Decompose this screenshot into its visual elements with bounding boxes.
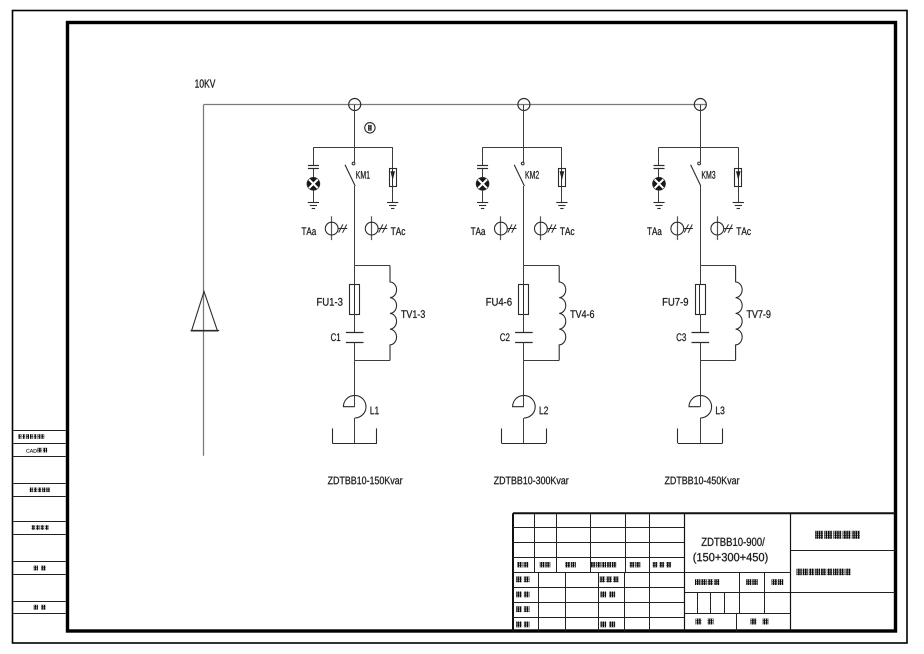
label ZDTBB10-900/ — [702, 537, 765, 546]
wire main branch 3 — [700, 186, 702, 266]
wire branch 1 — [354, 360, 356, 406]
wire branch 1 — [392, 186, 394, 202]
wire branch 3 — [700, 360, 702, 406]
current transformer TAa — [671, 216, 693, 240]
current transformer TAa — [495, 216, 517, 240]
wire branch 3 — [700, 314, 702, 333]
wire parallel top branch 1 — [355, 265, 390, 267]
label KM1 — [356, 171, 369, 179]
ground — [653, 203, 664, 209]
wire branch 3 — [738, 186, 740, 202]
wire rail to contact branch 2 — [523, 147, 525, 162]
surge arrester F1 — [390, 168, 397, 186]
wire arrester stem branch 3 — [738, 147, 740, 168]
ground — [308, 203, 319, 209]
contactor KM3 — [691, 162, 701, 186]
wire drop branch 1 — [354, 105, 356, 148]
capacitor C2 — [515, 333, 533, 343]
wire lamp stem branch 3 — [658, 147, 660, 165]
sidebar label CAD huitu — [26, 448, 47, 453]
wire 10KV bus — [204, 104, 707, 106]
label ZDTBB10-450Kvar — [665, 477, 740, 485]
inductor TV1-3 — [390, 266, 397, 361]
label TAa — [647, 227, 662, 235]
wire branch 1 — [313, 190, 315, 202]
current transformer TAc — [365, 216, 387, 240]
indicator lamp HL1 — [307, 178, 319, 190]
wire parallel top branch 2 — [524, 265, 559, 267]
wire branch 3 — [658, 169, 660, 178]
sheet count labels — [696, 619, 769, 625]
label L3 — [716, 407, 724, 415]
wire branch 3 — [700, 418, 702, 443]
current transformer TAc — [535, 216, 557, 240]
contactor KM2 — [514, 162, 524, 186]
capacitor C3 — [692, 333, 710, 343]
label TV1-3 — [401, 310, 425, 318]
stage mark labels — [695, 579, 783, 585]
title label yici xitong tu — [815, 531, 823, 539]
wire branch 3 — [658, 190, 660, 202]
wire feeder — [203, 105, 205, 456]
wire branch 1 — [354, 266, 356, 284]
label FU4-6 — [486, 298, 511, 306]
label (150+300+450) — [693, 553, 767, 564]
ground — [733, 203, 744, 209]
title label gaoya jizhong dianrong buchang gui — [797, 569, 802, 576]
wire branch 1 — [354, 342, 356, 360]
wire rail branch 1 — [313, 147, 392, 149]
wire arrester stem branch 1 — [392, 147, 394, 168]
surge arrester F2 — [559, 168, 566, 186]
surge arrester F3 — [735, 168, 742, 186]
wire branch 1 — [354, 314, 356, 333]
wire branch 2 — [523, 342, 525, 360]
indicator lamp HL3 — [653, 178, 665, 190]
wire lamp stem branch 2 — [482, 147, 484, 165]
indicator lamp HL2 — [476, 178, 488, 190]
wire parallel top branch 3 — [700, 265, 735, 267]
capacitor bank frame branch 3 — [678, 428, 723, 443]
reactor L2 — [513, 395, 536, 418]
ground — [556, 203, 567, 209]
wire rail to contact branch 1 — [354, 147, 356, 162]
label KM2 — [526, 171, 539, 179]
label FU7-9 — [663, 298, 688, 306]
wire branch 2 — [523, 314, 525, 333]
wire rail branch 3 — [659, 147, 738, 149]
wire branch 1 — [313, 169, 315, 178]
wire branch 3 — [700, 266, 702, 284]
label TAc — [736, 227, 750, 235]
wire rail branch 2 — [483, 147, 562, 149]
wire branch 2 — [561, 186, 563, 202]
wire branch 2 — [523, 266, 525, 284]
indicator circle K — [365, 123, 375, 133]
wire branch 2 — [523, 418, 525, 443]
capacitor bank frame branch 2 — [502, 428, 547, 443]
left sidebar table — [13, 431, 66, 614]
inductor TV4-6 — [559, 266, 566, 361]
wire branch 2 — [482, 190, 484, 202]
wire main branch 1 — [354, 186, 356, 266]
label ZDTBB10-150Kvar — [328, 477, 403, 485]
header row labels — [518, 562, 672, 567]
wire main branch 2 — [523, 186, 525, 266]
wire lamp stem branch 1 — [313, 147, 315, 165]
reactor L1 — [343, 395, 366, 418]
label TV7-9 — [747, 310, 771, 318]
fuse FU4-6 — [519, 284, 529, 315]
node circle branch 3 — [694, 99, 706, 111]
node circle branch 1 — [349, 99, 361, 111]
label L1 — [370, 407, 378, 415]
ground — [387, 203, 398, 209]
wire arrester stem branch 2 — [561, 147, 563, 168]
fuse FU7-9 — [696, 284, 706, 315]
label TAa — [471, 227, 486, 235]
current transformer TAa — [325, 216, 347, 240]
capacitor C1 — [346, 333, 364, 343]
wire branch 3 — [700, 342, 702, 360]
label TAc — [391, 227, 405, 235]
signature row labels — [516, 577, 619, 628]
inductor TV7-9 — [736, 266, 743, 361]
capacitor lamp-coupling branch 3 — [654, 166, 665, 169]
label 10KV — [195, 79, 215, 87]
wire drop branch 3 — [700, 105, 702, 148]
title block grid — [513, 513, 895, 631]
label L2 — [540, 407, 548, 415]
contactor KM1 — [345, 162, 355, 186]
fuse FU1-3 — [350, 284, 360, 315]
ground — [477, 203, 488, 209]
sidebar label jie(tong)yongjian dengji — [19, 434, 22, 439]
capacitor lamp-coupling branch 1 — [308, 166, 319, 169]
label TV4-6 — [570, 310, 594, 318]
label C1 — [331, 333, 340, 341]
wire parallel bottom branch 1 — [355, 360, 390, 362]
wire branch 2 — [523, 360, 525, 406]
capacitor bank frame branch 1 — [332, 428, 377, 443]
wire rail to contact branch 3 — [700, 147, 702, 162]
wire branch 1 — [354, 418, 356, 443]
wire parallel bottom branch 2 — [524, 360, 559, 362]
label C3 — [677, 333, 686, 341]
sidebar label jiu ditu zonghao — [30, 488, 33, 493]
node circle branch 2 — [518, 99, 530, 111]
sidebar label ri qi — [34, 605, 38, 610]
label TAa — [302, 227, 317, 235]
reactor L3 — [689, 395, 712, 418]
capacitor lamp-coupling branch 2 — [477, 166, 488, 169]
wire branch 2 — [482, 169, 484, 178]
current transformer TAc — [711, 216, 733, 240]
incoming feeder arrow — [191, 292, 220, 332]
wire parallel bottom branch 3 — [700, 360, 735, 362]
label FU1-3 — [317, 298, 342, 306]
label KM3 — [702, 171, 715, 179]
label C2 — [500, 333, 509, 341]
label ZDTBB10-300Kvar — [494, 477, 569, 485]
wire drop branch 2 — [523, 105, 525, 148]
sidebar label ditu zonghao — [32, 525, 36, 530]
label TAc — [560, 227, 574, 235]
sidebar label qian zi — [34, 566, 38, 571]
